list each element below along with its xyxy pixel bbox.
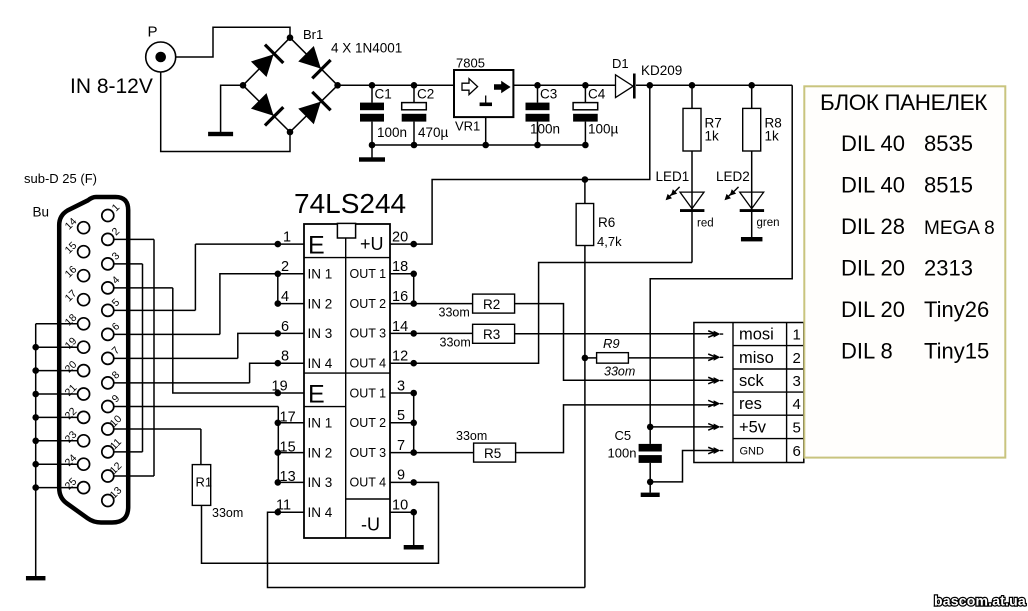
- svg-text:res: res: [739, 395, 762, 413]
- svg-text:3: 3: [793, 373, 801, 390]
- svg-text:6: 6: [281, 319, 289, 335]
- svg-text:DIL 40: DIL 40: [841, 131, 905, 156]
- svg-text:1k: 1k: [705, 129, 720, 144]
- svg-text:8535: 8535: [924, 131, 973, 156]
- svg-text:OUT 4: OUT 4: [350, 357, 387, 371]
- svg-text:IN 4: IN 4: [308, 356, 333, 371]
- svg-text:R2: R2: [483, 297, 500, 312]
- svg-text:15: 15: [280, 439, 296, 455]
- svg-text:5: 5: [397, 408, 405, 424]
- svg-text:14: 14: [392, 319, 408, 335]
- svg-text:sub-D 25 (F): sub-D 25 (F): [24, 171, 97, 186]
- svg-text:mosi: mosi: [739, 326, 774, 344]
- svg-text:8: 8: [281, 349, 289, 365]
- svg-text:LED2: LED2: [716, 169, 750, 184]
- svg-text:DIL 40: DIL 40: [841, 173, 905, 198]
- svg-text:1: 1: [283, 230, 291, 246]
- svg-text:R1: R1: [196, 475, 213, 490]
- svg-text:13: 13: [280, 469, 296, 485]
- svg-text:R3: R3: [483, 327, 500, 342]
- svg-text:IN 8-12V: IN 8-12V: [70, 75, 153, 98]
- svg-text:33om: 33om: [456, 429, 487, 443]
- svg-text:MEGA 8: MEGA 8: [924, 218, 995, 239]
- svg-text:DIL 20: DIL 20: [841, 256, 905, 281]
- svg-text:OUT 1: OUT 1: [350, 386, 387, 400]
- svg-text:3: 3: [397, 378, 405, 394]
- svg-text:OUT 3: OUT 3: [350, 446, 387, 460]
- svg-text:33om: 33om: [212, 506, 243, 520]
- svg-text:5: 5: [793, 419, 801, 436]
- svg-text:R5: R5: [484, 446, 501, 461]
- svg-text:100n: 100n: [530, 122, 560, 137]
- svg-text:DIL 20: DIL 20: [841, 297, 905, 322]
- svg-text:4: 4: [281, 289, 289, 305]
- svg-text:Tiny15: Tiny15: [924, 339, 989, 364]
- svg-text:IN 3: IN 3: [308, 475, 333, 490]
- svg-text:33om: 33om: [604, 365, 635, 379]
- svg-text:VR1: VR1: [455, 119, 480, 134]
- svg-text:C3: C3: [540, 87, 557, 102]
- svg-text:E: E: [308, 381, 325, 409]
- svg-text:470µ: 470µ: [418, 125, 449, 140]
- svg-text:-U: -U: [361, 515, 380, 535]
- svg-text:1k: 1k: [765, 129, 780, 144]
- svg-text:2: 2: [793, 350, 801, 367]
- svg-text:100µ: 100µ: [588, 122, 619, 137]
- svg-text:БЛОК ПАНЕЛЕК: БЛОК ПАНЕЛЕК: [820, 90, 987, 115]
- svg-text:2313: 2313: [924, 256, 973, 281]
- svg-text:C5: C5: [615, 428, 632, 443]
- svg-text:C2: C2: [417, 87, 434, 102]
- svg-text:P: P: [148, 24, 158, 41]
- svg-text:E: E: [308, 232, 325, 260]
- svg-text:OUT 1: OUT 1: [350, 267, 387, 281]
- svg-text:19: 19: [272, 378, 288, 394]
- svg-text:100n: 100n: [608, 446, 637, 461]
- svg-text:2: 2: [281, 259, 289, 275]
- svg-text:DIL 8: DIL 8: [841, 339, 893, 364]
- svg-text:18: 18: [392, 259, 408, 275]
- svg-text:12: 12: [392, 349, 408, 365]
- svg-text:C1: C1: [375, 87, 392, 102]
- svg-text:IN 4: IN 4: [308, 505, 333, 520]
- svg-text:LED1: LED1: [656, 169, 690, 184]
- svg-text:33om: 33om: [439, 306, 470, 320]
- svg-text:1: 1: [793, 327, 801, 344]
- svg-text:11: 11: [276, 497, 291, 513]
- svg-text:33om: 33om: [440, 336, 471, 350]
- svg-text:bascom.at.ua: bascom.at.ua: [934, 593, 1026, 609]
- svg-text:Bu: Bu: [33, 205, 50, 220]
- svg-text:Br1: Br1: [303, 27, 323, 42]
- svg-text:10: 10: [392, 497, 408, 513]
- svg-text:IN 1: IN 1: [308, 416, 333, 431]
- svg-text:17: 17: [280, 410, 296, 426]
- svg-text:+U: +U: [360, 234, 384, 254]
- svg-text:IN 2: IN 2: [308, 296, 333, 311]
- svg-text:D1: D1: [612, 56, 629, 71]
- svg-text:6: 6: [793, 443, 801, 460]
- svg-text:IN 2: IN 2: [308, 445, 333, 460]
- svg-text:+5v: +5v: [739, 418, 767, 436]
- svg-text:7805: 7805: [456, 56, 485, 71]
- svg-text:16: 16: [392, 289, 408, 305]
- svg-text:DIL 28: DIL 28: [841, 214, 905, 239]
- svg-text:4 X 1N4001: 4 X 1N4001: [331, 41, 402, 56]
- svg-text:red: red: [697, 218, 714, 230]
- svg-text:OUT 2: OUT 2: [350, 416, 387, 430]
- svg-text:Tiny26: Tiny26: [924, 297, 989, 322]
- svg-text:20: 20: [392, 230, 408, 246]
- svg-text:C4: C4: [588, 87, 606, 102]
- svg-text:74LS244: 74LS244: [294, 188, 406, 219]
- svg-text:OUT 2: OUT 2: [350, 297, 387, 311]
- svg-text:gren: gren: [757, 217, 780, 229]
- svg-text:8515: 8515: [924, 173, 973, 198]
- svg-text:KD209: KD209: [641, 63, 682, 78]
- svg-text:IN 1: IN 1: [308, 267, 333, 282]
- svg-text:9: 9: [397, 468, 405, 484]
- svg-text:miso: miso: [739, 349, 774, 367]
- svg-text:OUT 4: OUT 4: [350, 476, 387, 490]
- svg-text:GND: GND: [740, 446, 765, 458]
- svg-text:4,7k: 4,7k: [597, 234, 622, 249]
- svg-text:7: 7: [397, 438, 405, 454]
- svg-text:R9: R9: [603, 336, 620, 351]
- svg-text:4: 4: [793, 396, 801, 413]
- svg-text:R6: R6: [598, 215, 615, 230]
- svg-text:sck: sck: [739, 372, 765, 390]
- svg-text:100n: 100n: [377, 125, 407, 140]
- svg-text:OUT 3: OUT 3: [350, 327, 387, 341]
- svg-text:IN 3: IN 3: [308, 326, 333, 341]
